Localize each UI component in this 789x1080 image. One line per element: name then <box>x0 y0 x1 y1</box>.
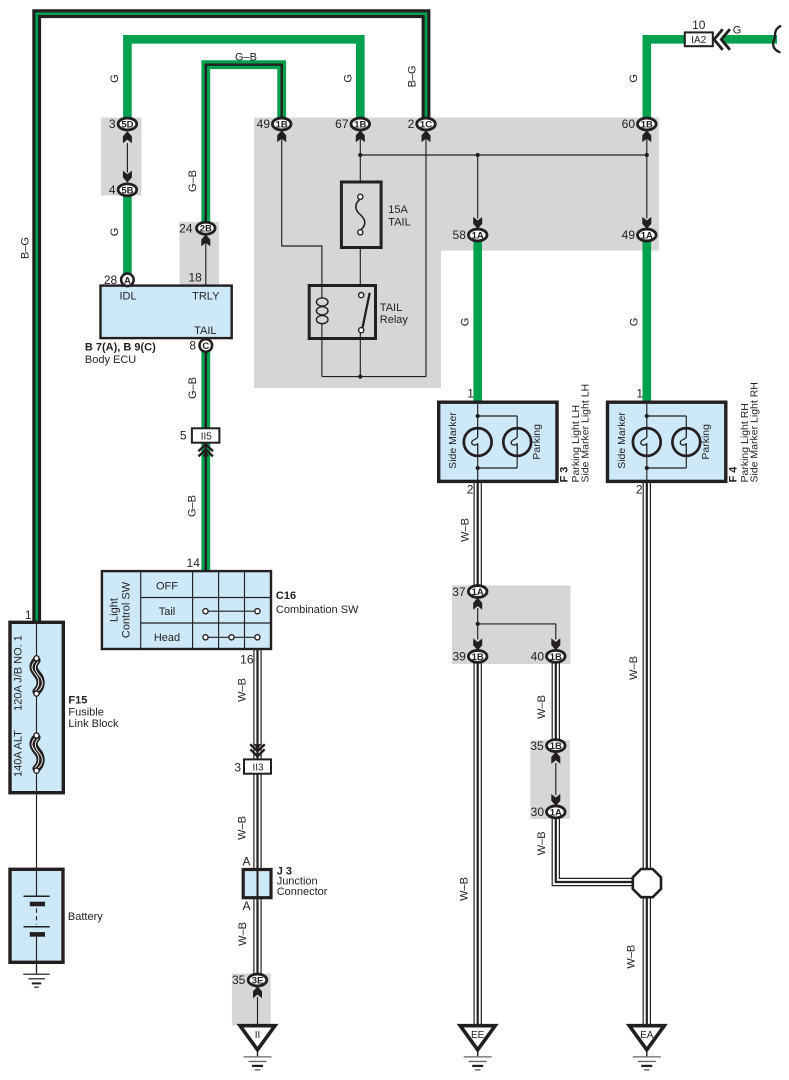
fuse 15A TAIL box <box>341 182 381 248</box>
svg-text:A: A <box>124 275 131 286</box>
svg-text:G: G <box>628 318 640 327</box>
wire relay coil out <box>321 338 323 377</box>
junction block shading (connectors 37/39/40) <box>452 585 571 664</box>
svg-text:TRLY: TRLY <box>192 291 220 303</box>
svg-text:2B: 2B <box>200 224 212 235</box>
svg-text:120A J/B NO. 1: 120A J/B NO. 1 <box>13 635 25 711</box>
svg-text:G–B: G–B <box>187 377 199 399</box>
svg-text:C16: C16 <box>276 590 296 602</box>
svg-text:Control SW: Control SW <box>121 581 133 638</box>
relay coil <box>321 286 323 299</box>
wire W-B J3 to 35(3E) <box>253 898 255 975</box>
svg-text:60: 60 <box>622 117 636 131</box>
svg-text:Side Marker Light RH: Side Marker Light RH <box>749 382 761 482</box>
wire 2(1C) to relay node <box>425 138 427 377</box>
node LH top <box>476 414 480 418</box>
svg-text:35: 35 <box>232 973 246 987</box>
connector 39(1B) <box>468 650 487 662</box>
svg-text:3: 3 <box>234 761 241 775</box>
svg-text:A: A <box>242 899 250 913</box>
battery box <box>10 869 63 962</box>
svg-text:EA: EA <box>640 1030 654 1041</box>
bulb side marker LH <box>464 428 492 456</box>
svg-text:IDL: IDL <box>119 291 136 303</box>
svg-text:1B: 1B <box>276 120 288 131</box>
svg-text:B–G: B–G <box>407 65 419 87</box>
svg-text:OFF: OFF <box>156 580 178 592</box>
junction block J/B shading (tail relay block) <box>254 118 659 389</box>
svg-text:W–B: W–B <box>459 518 471 542</box>
svg-text:Side Marker: Side Marker <box>447 412 459 469</box>
bulb parking LH <box>503 428 531 456</box>
svg-text:2: 2 <box>636 482 643 496</box>
svg-text:Connector: Connector <box>277 886 328 898</box>
wire B-G battery to 2(1C) <box>37 14 426 623</box>
wire branch to 58(1A) <box>477 155 479 219</box>
body ECU box B7(A),B9(C) <box>101 286 232 339</box>
svg-text:Body ECU: Body ECU <box>85 354 136 366</box>
fuse 15A TAIL symbol <box>356 199 365 230</box>
parking light RH box F4 <box>608 402 726 481</box>
svg-text:1A: 1A <box>472 587 484 598</box>
combination switch C16 box <box>102 571 271 649</box>
wire fuse to relay switch <box>359 248 361 287</box>
connector 37(1A) <box>468 586 487 598</box>
svg-text:1B: 1B <box>641 120 653 131</box>
svg-text:49: 49 <box>257 117 271 131</box>
svg-text:C: C <box>202 341 209 352</box>
svg-text:3: 3 <box>109 117 116 131</box>
node below 37(1A) <box>476 622 480 626</box>
fusible link 140A ALT <box>34 738 41 769</box>
svg-text:140A ALT: 140A ALT <box>13 730 25 777</box>
svg-text:18: 18 <box>188 271 202 285</box>
svg-text:28: 28 <box>104 273 118 287</box>
chevrons above II3 <box>250 744 265 751</box>
svg-text:W–B: W–B <box>237 922 249 946</box>
svg-text:EE: EE <box>471 1030 485 1041</box>
svg-text:TAIL: TAIL <box>388 217 410 229</box>
wire G 49(1A) to parking light RH <box>642 241 651 404</box>
wire node to 39(1B) <box>477 624 479 640</box>
connector 60(1B) <box>638 118 657 130</box>
wire G 58(1A) to parking light LH <box>473 241 482 404</box>
svg-text:II3: II3 <box>252 762 264 773</box>
svg-text:Tail: Tail <box>159 606 176 618</box>
svg-text:G–B: G–B <box>187 170 199 192</box>
wire W-B parking light LH to 37(1A) <box>473 482 475 586</box>
svg-text:Relay: Relay <box>380 314 409 326</box>
harness break symbol <box>773 26 780 52</box>
wire G-B ECU pin C to combination SW pin 14 <box>201 351 210 572</box>
wire relay bottom bus <box>322 376 426 378</box>
svg-text:1B: 1B <box>550 741 562 752</box>
svg-text:30: 30 <box>531 805 545 819</box>
connector 40(1B) <box>547 650 566 662</box>
wire G IA2 to 60(1B) <box>647 39 685 119</box>
svg-text:G: G <box>459 318 471 327</box>
svg-text:67: 67 <box>335 117 349 131</box>
wire W-B II3 to J3 <box>253 774 255 870</box>
svg-text:G: G <box>109 74 121 83</box>
svg-text:37: 37 <box>452 585 466 599</box>
svg-text:G: G <box>342 74 354 83</box>
svg-text:Fusible: Fusible <box>68 707 103 719</box>
wire W-B 39(1B) to ground EE <box>473 662 475 1025</box>
svg-text:15A: 15A <box>388 204 408 216</box>
svg-text:1A: 1A <box>550 807 562 818</box>
chevrons below II5 <box>198 444 213 451</box>
wire W-B combination SW pin 16 to II3 <box>253 649 255 760</box>
connector 2(1C) <box>417 118 436 130</box>
pin A ECU <box>121 274 134 287</box>
connector 49(1A) <box>638 229 657 241</box>
wire G 4(5B) to ECU pin A <box>123 196 132 275</box>
node RH bottom <box>645 466 649 470</box>
pin C ECU <box>200 339 213 352</box>
wire 37(1A) to node <box>477 608 479 624</box>
svg-text:5: 5 <box>180 429 187 443</box>
svg-text:5D: 5D <box>121 120 133 131</box>
connector IA2 (pin 10) <box>685 32 713 46</box>
node at 60(1B) column <box>645 153 649 157</box>
svg-text:1B: 1B <box>354 120 366 131</box>
connector 30(1A) <box>547 806 566 818</box>
svg-text:F 4: F 4 <box>727 466 739 483</box>
svg-text:B 7(A), B 9(C): B 7(A), B 9(C) <box>85 342 156 354</box>
svg-text:40: 40 <box>531 650 545 664</box>
svg-text:58: 58 <box>453 228 467 242</box>
connector 58(1A) <box>468 229 487 241</box>
parking light LH internal wiring <box>477 404 479 428</box>
connector 67(1B) <box>351 118 370 130</box>
svg-text:Combination SW: Combination SW <box>276 604 359 616</box>
connector 24(2B) <box>197 222 216 234</box>
node at 67(1B) column <box>358 153 362 157</box>
combination SW tail contacts <box>206 610 258 612</box>
node relay output <box>358 375 362 379</box>
combination SW head contacts <box>206 636 258 638</box>
svg-text:1: 1 <box>636 387 643 401</box>
relay switch <box>362 293 369 329</box>
svg-text:G: G <box>109 228 121 237</box>
svg-text:W–B: W–B <box>536 695 548 719</box>
svg-text:8: 8 <box>189 339 196 353</box>
bulb parking RH <box>672 428 700 456</box>
svg-text:1B: 1B <box>550 652 562 663</box>
wire G-B 24(2B) to 49(1B) <box>206 65 282 223</box>
wire W-B 30(1A) to junction <box>552 818 634 886</box>
junction connector J3 <box>243 870 271 898</box>
svg-text:4: 4 <box>109 183 116 197</box>
fusible link 120A J/B NO.1 <box>36 622 38 658</box>
wire G from harness break to IA2 chevrons <box>723 35 778 44</box>
octagon splice junction <box>633 869 661 897</box>
svg-text:F 3: F 3 <box>559 467 571 483</box>
svg-text:W–B: W–B <box>536 831 548 855</box>
wire 67(1B) to fuse <box>359 138 361 182</box>
wire node to 40(1B) <box>478 624 556 640</box>
ground EE <box>460 1026 495 1050</box>
wire between 5D and 5B <box>126 143 128 173</box>
wire 60(1B) to 49(1A) <box>646 138 648 219</box>
junction block shading (connector 2B) <box>180 222 220 285</box>
svg-text:Parking: Parking <box>531 424 543 460</box>
battery symbol <box>36 869 38 896</box>
svg-text:TAIL: TAIL <box>194 325 216 337</box>
svg-text:Link Block: Link Block <box>68 718 119 730</box>
connector 49(1B) <box>272 118 291 130</box>
battery ground <box>36 962 38 974</box>
svg-text:W–B: W–B <box>458 877 470 901</box>
wire 2B to ECU pin 18 <box>205 241 207 287</box>
svg-text:14: 14 <box>187 556 201 570</box>
svg-text:A: A <box>242 855 250 869</box>
wire W-B parking light RH to ground EA <box>642 482 644 1026</box>
connector 35(1B) <box>547 740 566 752</box>
svg-text:3E: 3E <box>252 976 264 987</box>
svg-text:24: 24 <box>179 222 193 236</box>
svg-text:Light: Light <box>109 598 121 622</box>
connector 3(5D) <box>118 118 137 130</box>
junction block shading (connectors 35/30) <box>530 740 570 819</box>
svg-text:II5: II5 <box>201 431 213 442</box>
wire W-B 40(1B) to 35(1B) <box>551 662 553 740</box>
svg-text:W–B: W–B <box>237 816 249 840</box>
wire 49(1B) to relay coil <box>282 138 322 286</box>
svg-text:G: G <box>733 25 742 37</box>
svg-text:2: 2 <box>408 117 415 131</box>
parking light RH internal wiring <box>646 404 648 428</box>
svg-text:1B: 1B <box>472 652 484 663</box>
wire 3E to ground II <box>257 997 259 1026</box>
svg-text:1: 1 <box>25 608 32 622</box>
chevrons at IA2 <box>714 29 723 50</box>
connector II5 (pin 5) <box>192 428 220 442</box>
svg-text:Parking: Parking <box>700 424 712 460</box>
svg-text:1A: 1A <box>641 231 653 242</box>
connector 4(5B) <box>118 184 137 196</box>
node branch 58(1A) <box>476 153 480 157</box>
wire G 3(5D) to 67(1B) <box>127 39 360 119</box>
svg-text:B–G: B–G <box>20 237 32 259</box>
svg-text:Side Marker Light LH: Side Marker Light LH <box>580 384 592 483</box>
ground II <box>240 1026 275 1050</box>
svg-text:G–B: G–B <box>235 51 257 63</box>
svg-text:Battery: Battery <box>68 911 103 923</box>
svg-text:Head: Head <box>154 632 180 644</box>
svg-text:1A: 1A <box>472 231 484 242</box>
svg-text:1: 1 <box>467 387 474 401</box>
svg-text:1C: 1C <box>420 120 432 131</box>
node RH top <box>645 414 649 418</box>
svg-text:35: 35 <box>530 739 544 753</box>
svg-text:W–B: W–B <box>628 656 640 680</box>
TAIL relay box <box>309 286 375 339</box>
bus wire node row <box>360 154 647 156</box>
wire between 35 and 30 <box>555 763 557 795</box>
junction block shading (connectors 5D/5B) <box>101 118 142 196</box>
svg-text:TAIL: TAIL <box>380 302 402 314</box>
svg-text:G–B: G–B <box>187 495 199 517</box>
svg-text:II: II <box>255 1030 261 1041</box>
svg-text:IA2: IA2 <box>691 35 706 46</box>
svg-text:Side Marker: Side Marker <box>616 412 628 469</box>
svg-text:49: 49 <box>622 228 636 242</box>
fusible link block F15 box <box>10 622 63 792</box>
svg-text:G: G <box>628 74 640 83</box>
parking light LH box F3 <box>439 402 557 481</box>
bulb side marker RH <box>633 428 661 456</box>
wire F15 to battery <box>36 793 38 870</box>
connector 35(3E) <box>248 974 267 986</box>
svg-text:2: 2 <box>467 482 474 496</box>
svg-text:W–B: W–B <box>626 945 638 969</box>
svg-text:5B: 5B <box>121 185 133 196</box>
svg-text:W–B: W–B <box>237 678 249 702</box>
svg-text:10: 10 <box>692 18 706 32</box>
svg-text:39: 39 <box>452 650 466 664</box>
ground EA <box>629 1026 664 1050</box>
connector II3 (pin 3) <box>244 759 271 773</box>
svg-text:F15: F15 <box>68 695 87 707</box>
wire relay switch out <box>359 332 361 377</box>
node LH bottom <box>476 466 480 470</box>
svg-text:16: 16 <box>240 653 254 667</box>
junction block shading (connector 3E) <box>232 973 271 1025</box>
